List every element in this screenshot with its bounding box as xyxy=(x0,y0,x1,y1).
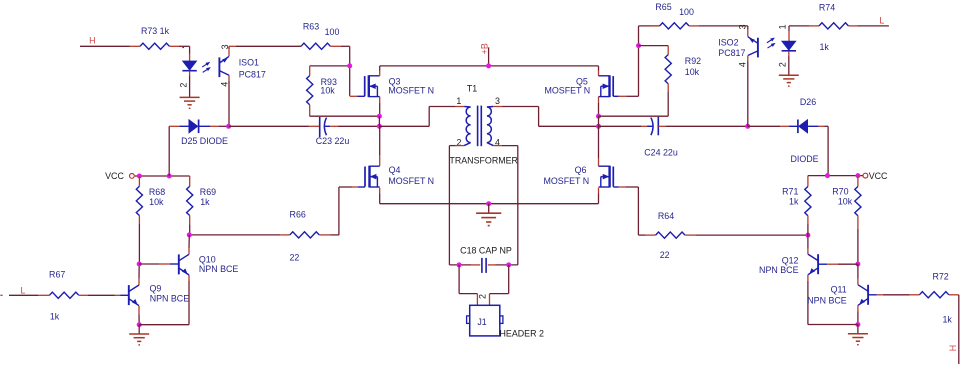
svg-text:NPN BCE: NPN BCE xyxy=(199,264,239,274)
svg-text:Q9: Q9 xyxy=(150,284,162,294)
svg-text:C23 22u: C23 22u xyxy=(316,136,350,146)
svg-text:NPN BCE: NPN BCE xyxy=(759,265,799,275)
svg-text:MOSFET N: MOSFET N xyxy=(543,176,589,186)
svg-text:NPN BCE: NPN BCE xyxy=(807,295,847,305)
svg-text:R64: R64 xyxy=(658,211,674,221)
svg-text:MOSFET N: MOSFET N xyxy=(388,176,434,186)
svg-text:1k: 1k xyxy=(943,315,953,325)
svg-text:Q12: Q12 xyxy=(782,256,799,266)
svg-text:PC817: PC817 xyxy=(239,70,266,80)
svg-text:D25 DIODE: D25 DIODE xyxy=(181,136,228,146)
svg-text:Q4: Q4 xyxy=(389,165,401,175)
svg-text:PC817: PC817 xyxy=(718,48,745,58)
svg-text:2: 2 xyxy=(179,83,189,88)
svg-text:H: H xyxy=(948,345,958,351)
svg-text:+B: +B xyxy=(480,43,490,54)
svg-text:T1: T1 xyxy=(467,83,477,93)
svg-text:Q6: Q6 xyxy=(575,165,587,175)
svg-text:NPN BCE: NPN BCE xyxy=(150,294,190,304)
svg-text:1: 1 xyxy=(777,24,787,29)
svg-text:1: 1 xyxy=(456,96,461,106)
svg-text:ISO2: ISO2 xyxy=(718,38,738,48)
svg-text:R92: R92 xyxy=(685,56,701,66)
svg-text:R63: R63 xyxy=(303,22,319,32)
svg-text:1k: 1k xyxy=(820,42,830,52)
svg-text:4: 4 xyxy=(737,62,747,67)
svg-text:10k: 10k xyxy=(685,67,700,77)
svg-text:R65: R65 xyxy=(655,2,671,12)
svg-text:R74: R74 xyxy=(819,2,835,12)
svg-text:10k: 10k xyxy=(838,197,853,207)
svg-text:100: 100 xyxy=(325,27,340,37)
svg-text:VCC: VCC xyxy=(869,171,888,181)
svg-text:MOSFET N: MOSFET N xyxy=(544,85,590,95)
svg-text:1k: 1k xyxy=(789,197,799,207)
svg-text:22: 22 xyxy=(660,250,670,260)
svg-text:MOSFET N: MOSFET N xyxy=(388,85,434,95)
svg-text:DIODE: DIODE xyxy=(790,154,818,164)
svg-text:10k: 10k xyxy=(149,197,164,207)
svg-text:10k: 10k xyxy=(320,86,335,96)
svg-text:Q11: Q11 xyxy=(831,285,847,295)
svg-text:R70: R70 xyxy=(832,186,848,196)
svg-text:R67: R67 xyxy=(49,270,65,280)
svg-text:4: 4 xyxy=(220,82,230,87)
svg-text:C24 22u: C24 22u xyxy=(644,148,678,158)
svg-text:3: 3 xyxy=(220,44,230,49)
svg-text:R71: R71 xyxy=(782,186,798,196)
svg-text:R69: R69 xyxy=(200,187,216,197)
svg-text:1k: 1k xyxy=(50,312,60,322)
svg-text:R68: R68 xyxy=(149,187,165,197)
svg-text:H: H xyxy=(89,35,95,45)
svg-text:L: L xyxy=(21,285,26,295)
svg-text:R72: R72 xyxy=(932,272,948,282)
svg-text:D26: D26 xyxy=(800,97,816,107)
svg-text:2: 2 xyxy=(478,294,488,299)
svg-text:R66: R66 xyxy=(290,210,306,220)
svg-text:3: 3 xyxy=(737,24,747,29)
svg-text:HEADER 2: HEADER 2 xyxy=(500,329,544,339)
svg-text:100: 100 xyxy=(679,7,694,17)
svg-text:VCC: VCC xyxy=(105,171,124,181)
svg-text:3: 3 xyxy=(495,96,500,106)
svg-text:C18 CAP NP: C18 CAP NP xyxy=(460,245,512,255)
svg-text:TRANSFORMER: TRANSFORMER xyxy=(449,155,518,165)
svg-text:R73 1k: R73 1k xyxy=(141,26,170,36)
svg-text:1k: 1k xyxy=(200,197,210,207)
svg-text:2: 2 xyxy=(777,62,787,67)
svg-text:L: L xyxy=(879,16,884,26)
svg-text:ISO1: ISO1 xyxy=(239,58,259,68)
svg-text:22: 22 xyxy=(289,253,299,263)
svg-text:J1: J1 xyxy=(477,317,486,327)
